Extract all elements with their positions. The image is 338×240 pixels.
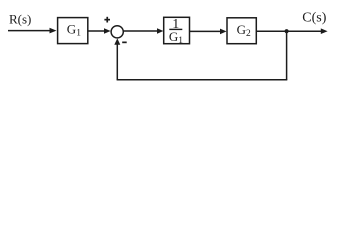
- svg-text:C(s): C(s): [302, 10, 326, 25]
- svg-text:R(s): R(s): [9, 11, 31, 26]
